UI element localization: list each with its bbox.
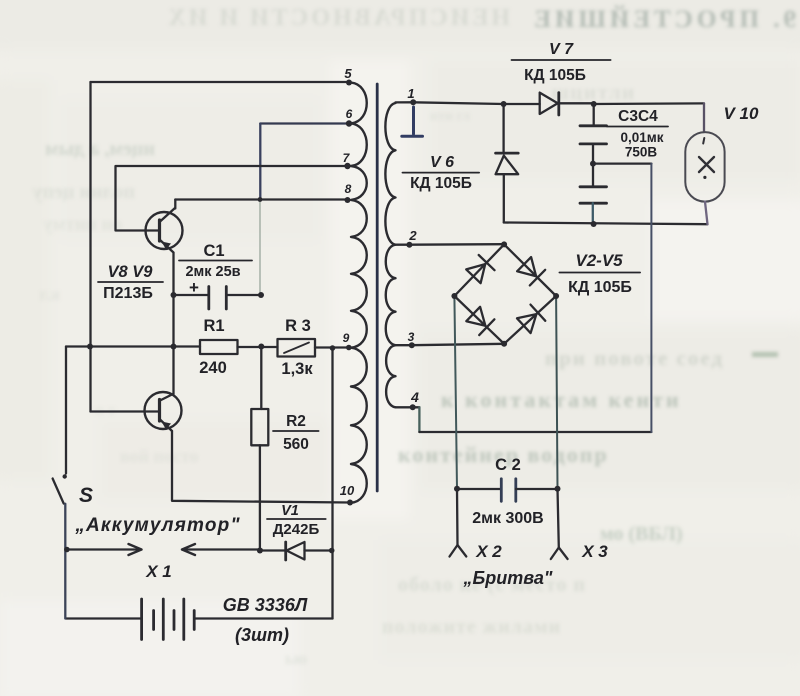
svg-text:С3С4: С3С4 [618, 108, 658, 125]
node tap6 [346, 120, 352, 126]
label C3 C4 value [607, 108, 668, 160]
node V7 anode [501, 101, 507, 107]
svg-text:3: 3 [408, 330, 415, 344]
wire switch branch [65, 347, 67, 474]
svg-text:6: 6 [346, 107, 353, 121]
wire R1 row [66, 347, 349, 348]
capacitor C4 [580, 164, 607, 224]
svg-text:750В: 750В [625, 145, 658, 160]
svg-text:„Бритва": „Бритва" [463, 568, 553, 588]
resistor R2 [251, 409, 268, 445]
label V1 D242B [267, 503, 326, 538]
svg-text:2: 2 [408, 228, 417, 243]
label V8 V9 P213B [98, 263, 163, 302]
node tap5 [346, 80, 352, 86]
wire lamp bottom lead [705, 202, 708, 225]
wire bridge left leg down to X2 [454, 296, 457, 489]
node R1 left outer [87, 344, 93, 350]
wire column emitter V8 to V9 collector [160, 295, 174, 401]
svg-text:V2-V5: V2-V5 [575, 251, 623, 270]
wire tap6 to column [260, 122, 349, 124]
schematic hand lettering [74, 41, 759, 645]
label R3 value [281, 317, 313, 378]
wire left outer vertical [89, 82, 91, 412]
wire tap8 to V8 collector [175, 198, 347, 200]
wire tap3 lead [396, 344, 505, 345]
label V6 KD105B [403, 154, 480, 192]
svg-text:4: 4 [410, 389, 419, 405]
svg-text:С 2: С 2 [495, 456, 521, 474]
svg-text:(3шт): (3шт) [235, 625, 289, 645]
node tap1 [410, 99, 416, 105]
node tap7 [344, 163, 350, 169]
svg-text:R 3: R 3 [285, 317, 311, 335]
svg-text:Д242Б: Д242Б [273, 521, 320, 538]
wire battery row left [66, 617, 142, 619]
node tap9 [346, 345, 352, 351]
node bridge bottom [501, 341, 507, 347]
wire tap1 row [396, 102, 504, 104]
svg-text:П213Б: П213Б [103, 285, 153, 302]
svg-text:V 6: V 6 [430, 154, 454, 171]
transformer secondary winding [385, 103, 395, 407]
transistor V8 [146, 200, 183, 296]
svg-text:GB 3336Л: GB 3336Л [223, 595, 308, 615]
svg-text:С1: С1 [203, 242, 224, 260]
node tap10 [347, 500, 353, 506]
bleed text left column (mirrored) [33, 138, 155, 304]
svg-text:7: 7 [343, 151, 351, 165]
bridge rectifier V2-V5 arms [454, 244, 556, 343]
wire column tap6 down to tap8 wire [259, 124, 261, 200]
wire bridge right leg down to X3 [556, 296, 557, 489]
wire battery row right [194, 617, 332, 619]
svg-text:1,3к: 1,3к [281, 360, 313, 378]
node tap8 [345, 197, 351, 203]
node bridge right [553, 293, 559, 299]
label V2-V5 KD105B [559, 251, 640, 296]
wire V9 emitter down to tap10 [172, 431, 350, 503]
diode on bottom-right arm [517, 314, 536, 333]
node R3 V1 column [330, 345, 336, 351]
node C3 top [591, 101, 597, 107]
svg-text:КД 105Б: КД 105Б [524, 67, 586, 84]
diode V1 [260, 542, 332, 560]
svg-text:V 7: V 7 [549, 41, 574, 58]
svg-text:V 10: V 10 [724, 104, 760, 123]
wire R2 bottom to V1 node [259, 445, 261, 550]
svg-text:V8 V9: V8 V9 [108, 263, 154, 281]
wire faint column tap8 to C1 [259, 200, 261, 294]
transformer primary winding [351, 83, 367, 503]
capacitor C1 [174, 287, 262, 310]
node C2 right [555, 486, 561, 492]
wire tap9 column down to battery [331, 348, 333, 619]
diode on top-right arm [517, 257, 536, 276]
diode V6 [496, 104, 519, 223]
node V1 left [257, 548, 263, 554]
svg-text:Х 1: Х 1 [145, 562, 172, 581]
svg-text:R2: R2 [286, 413, 306, 430]
wire C3C4 midpoint to lamp-return column [593, 162, 651, 164]
resistor R3 [278, 339, 316, 357]
node C4 bottom [591, 221, 597, 227]
label R1 value [199, 317, 227, 377]
transistor V9 [145, 392, 182, 431]
node C2 left [454, 486, 460, 492]
diode on bottom-left arm [466, 307, 485, 326]
svg-text:Х 2: Х 2 [475, 542, 502, 561]
diode V7 [504, 93, 704, 115]
lamp V10 [685, 132, 724, 202]
wire tap2 lead [396, 243, 503, 246]
svg-text:+: + [189, 278, 199, 297]
node tap4 [410, 404, 416, 410]
node tap8 column cross [258, 197, 263, 202]
node tap2 [406, 242, 412, 248]
svg-text:КД 105Б: КД 105Б [410, 175, 472, 192]
wire top loop to tap 5 [91, 81, 350, 83]
wire tap7 lead [116, 166, 348, 231]
svg-text:КД 105Б: КД 105Б [568, 279, 632, 296]
capacitor C3 [580, 104, 607, 164]
svg-text:240: 240 [199, 359, 227, 377]
node C3C4 mid [590, 161, 596, 167]
wire lamp top lead [703, 103, 705, 132]
svg-text:5: 5 [344, 66, 352, 81]
node C1 left [171, 292, 177, 298]
switch S [53, 479, 64, 504]
label R2 value [273, 413, 319, 453]
svg-text:V1: V1 [281, 503, 299, 519]
connector X3 fork [551, 548, 568, 560]
wire tap4 step [396, 406, 420, 408]
node X1 left [64, 547, 70, 553]
svg-text:10: 10 [340, 483, 355, 498]
wire below switch [64, 504, 66, 619]
svg-text:0,01мк: 0,01мк [620, 130, 663, 145]
node R1 emitter column [171, 344, 177, 350]
node switch top [62, 474, 66, 478]
svg-text:Х 3: Х 3 [581, 542, 608, 561]
node bridge left [451, 293, 457, 299]
svg-text:S: S [79, 484, 93, 507]
wire R2 column top [260, 347, 262, 410]
wire V9 base lead [91, 410, 159, 412]
capacitor C2 [457, 479, 558, 502]
node tap3 [409, 342, 415, 348]
svg-text:„Аккумулятор": „Аккумулятор" [74, 515, 240, 536]
svg-text:9: 9 [343, 331, 350, 345]
wire tap4 row to lamp column [419, 431, 651, 433]
label C1 value [179, 242, 252, 297]
battery GB [142, 599, 195, 640]
svg-text:R1: R1 [203, 317, 224, 335]
connector X2 fork [450, 545, 467, 557]
svg-text:2мк 300В: 2мк 300В [472, 510, 543, 527]
resistor R1 [200, 340, 238, 354]
svg-text:1: 1 [407, 86, 414, 101]
transformer core [376, 84, 379, 491]
node R1 R3 mid [258, 344, 264, 350]
svg-text:8: 8 [345, 182, 352, 196]
node C1 right [258, 292, 264, 298]
diode on top-left arm [466, 264, 485, 283]
connector X1 arrows [67, 544, 262, 555]
svg-text:560: 560 [283, 436, 309, 453]
label V7 KD105B [512, 41, 611, 84]
annotation blue tee under tap1 [402, 107, 423, 136]
wire bottom row right section [504, 223, 708, 225]
node V1 right [329, 548, 335, 554]
node bridge top [501, 241, 507, 247]
